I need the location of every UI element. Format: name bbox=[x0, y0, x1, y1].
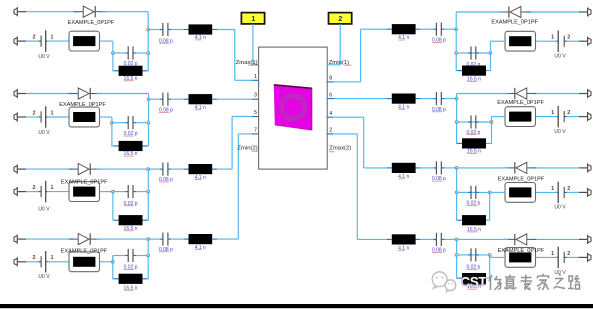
wire row L2 diode to junction bbox=[97, 93, 149, 95]
wire row R1 pin stub bbox=[333, 81, 360, 83]
junction row L3 node A bbox=[111, 190, 114, 193]
svg-text:3: 3 bbox=[254, 93, 257, 99]
svg-text:8: 8 bbox=[329, 76, 332, 82]
wire row L1 tank top right bbox=[136, 52, 148, 54]
block EXAMPLE_0P1PF body row R4 bbox=[505, 248, 536, 268]
svg-text:U0 V: U0 V bbox=[554, 129, 566, 135]
label 0.02 p row L3 bbox=[124, 201, 138, 207]
voltage source U0 row R3 battery bbox=[556, 182, 567, 204]
wire row L4 tank bottom right bbox=[146, 256, 149, 279]
junction row L2 node A bbox=[110, 121, 113, 124]
svg-text:U0 V: U0 V bbox=[554, 54, 566, 60]
svg-text:1: 1 bbox=[51, 185, 54, 191]
wire row R2 junction to series cap bbox=[445, 98, 457, 100]
wire row R3 tank top right bbox=[468, 191, 490, 193]
svg-text:2: 2 bbox=[567, 110, 570, 116]
wire row R1 diode to junction bbox=[456, 11, 502, 13]
capacitor 0.02p row L4 bbox=[125, 255, 128, 257]
wire row R2 node A jog bbox=[491, 117, 493, 122]
wire row R3 vertical to pin bbox=[363, 117, 365, 168]
wire row L3 junction to series cap bbox=[148, 168, 159, 170]
label 4.1 n row R3 bbox=[398, 174, 409, 180]
inductor 4.1n row R1 bbox=[416, 28, 421, 30]
svg-text:1: 1 bbox=[551, 110, 554, 116]
wire row L2 tank bottom right bbox=[147, 123, 148, 146]
watermark text CST badge bbox=[460, 274, 487, 289]
wire row L4 tank bottom left bbox=[113, 256, 114, 279]
wire row L3 cap to inductor bbox=[171, 168, 184, 170]
label 0.02 p row R4 bbox=[466, 264, 480, 270]
port P5 (left row 3 top) bbox=[14, 165, 26, 174]
wire row L3 tank top right bbox=[136, 191, 148, 193]
wire row R3 diode to junction bbox=[457, 167, 509, 169]
wire row L1 battery to block bbox=[47, 40, 69, 42]
wire row R3 junction to series cap bbox=[445, 167, 457, 169]
label 0.08 p row L1 bbox=[159, 38, 173, 44]
wire row L1 tank bottom right bbox=[146, 53, 149, 71]
svg-text:U0 V: U0 V bbox=[38, 206, 50, 212]
svg-text:2: 2 bbox=[329, 128, 332, 134]
wire row L2 block to node A bbox=[100, 116, 112, 118]
port P8 (left row 4 source) bbox=[14, 257, 26, 266]
wire row L4 junction to series cap bbox=[148, 238, 160, 240]
inductor 4.1n row L1 bbox=[184, 29, 189, 31]
junction row R4 node A bbox=[488, 253, 491, 256]
diode D4 EXAMPLE_0P1PF bbox=[69, 238, 75, 240]
inductor 16.5n row L3 bbox=[114, 219, 119, 221]
svg-text:1: 1 bbox=[551, 35, 554, 41]
label 16.5 n row R3 bbox=[467, 227, 481, 233]
diode D4R EXAMPLE_0P1PF bbox=[530, 238, 536, 240]
svg-text:2: 2 bbox=[567, 251, 570, 257]
wire row R3 junction down to tank bbox=[456, 168, 458, 193]
label 0.02 p row L2 bbox=[124, 131, 138, 137]
label 16.5 n row L1 bbox=[124, 76, 138, 82]
svg-text:EXAMPLE_0P1PF: EXAMPLE_0P1PF bbox=[497, 100, 544, 106]
wire row R2 port to diode bbox=[533, 93, 579, 95]
watermark WeChat icon bbox=[432, 272, 456, 292]
label 4.1 n row L3 bbox=[195, 175, 206, 181]
wire row L3 inductor to corner bbox=[217, 168, 232, 170]
block EXAMPLE_0P1PF body row L1 bbox=[69, 31, 100, 51]
label 16.5 n row L3 bbox=[124, 226, 138, 232]
svg-text:U0 V: U0 V bbox=[38, 274, 50, 280]
wire row R3 cap to inductor bbox=[420, 167, 433, 169]
port P2R (right row 1 source) bbox=[579, 37, 591, 46]
junction row L1 main bbox=[147, 28, 150, 31]
wire row R2 tank bottom right bbox=[487, 122, 492, 143]
junction row L2 node B bbox=[147, 121, 150, 124]
wire row R2 battery to block bbox=[536, 116, 558, 118]
capacitor 0.08p row L3 bbox=[160, 168, 163, 170]
port P1R (right row 1 top) bbox=[579, 7, 591, 16]
voltage source U0 row R2 battery bbox=[556, 106, 567, 128]
port P2 (left row 1 source) bbox=[14, 37, 26, 46]
svg-text:1: 1 bbox=[251, 16, 255, 23]
label 0.08 p row R2 bbox=[432, 107, 446, 113]
diode D1 EXAMPLE_0P1PF bbox=[74, 11, 80, 13]
port P3 (left row 2 top) bbox=[14, 89, 26, 98]
junction row L1 node B bbox=[147, 52, 150, 55]
wire row L2 junction to series cap bbox=[149, 98, 160, 100]
svg-text:1: 1 bbox=[51, 255, 54, 261]
svg-text:U0 V: U0 V bbox=[554, 204, 566, 210]
wire row R1 block to node A bbox=[491, 40, 506, 42]
label 16.5 n row R4 bbox=[467, 284, 481, 290]
port P8R (right row 4 source) bbox=[579, 253, 591, 262]
port P7R (right row 4 top) bbox=[579, 235, 591, 244]
wire row L1 inductor to corner bbox=[217, 29, 235, 31]
capacitor 0.02p row L1 bbox=[125, 52, 128, 54]
junction row R1 node B bbox=[455, 52, 458, 55]
voltage source U0 row L1 battery bbox=[39, 30, 48, 52]
label 0.08 p row L3 bbox=[159, 177, 173, 183]
svg-text:Zmax(2): Zmax(2) bbox=[329, 146, 351, 152]
S-parameter block U1 body bbox=[259, 47, 328, 169]
svg-text:4: 4 bbox=[329, 111, 332, 117]
svg-text:EXAMPLE_0P1PF: EXAMPLE_0P1PF bbox=[68, 20, 115, 26]
wire row L2 tank bottom left bbox=[112, 123, 114, 146]
junction row L4 main bbox=[147, 238, 150, 241]
voltage source U0 row L2 battery bbox=[39, 106, 48, 128]
junction row R2 node A bbox=[490, 121, 493, 124]
block EXAMPLE_0P1PF body row L3 bbox=[69, 182, 100, 202]
svg-text:1: 1 bbox=[551, 251, 554, 257]
junction row R1 main bbox=[455, 28, 458, 31]
port P5R (right row 3 top) bbox=[579, 163, 591, 172]
svg-text:EXAMPLE_0P1PF: EXAMPLE_0P1PF bbox=[498, 176, 545, 182]
wire row L2 inductor to block pin bbox=[217, 98, 252, 100]
junction row R4 main bbox=[455, 238, 458, 241]
label 4.1 n row R4 bbox=[398, 245, 409, 251]
svg-text:1: 1 bbox=[254, 74, 257, 80]
svg-text:2: 2 bbox=[567, 186, 570, 192]
wire row L1 block to node A bbox=[100, 40, 113, 42]
wire row L3 pin stub bbox=[232, 116, 252, 118]
inductor 16.5n row L2 bbox=[114, 145, 119, 147]
wire row R4 node A jog bbox=[489, 255, 491, 258]
wire from probe 1 to U1 bbox=[253, 24, 259, 65]
label 4.1 n row L1 bbox=[195, 35, 206, 41]
wire row R1 vertical to pin bbox=[360, 29, 362, 82]
diode D3 EXAMPLE_0P1PF bbox=[69, 168, 75, 170]
block EXAMPLE_0P1PF body row R3 bbox=[505, 183, 536, 203]
svg-text:U0 V: U0 V bbox=[38, 54, 50, 60]
wire row L4 cap to inductor bbox=[171, 238, 184, 240]
label 0.08 p row R3 bbox=[432, 176, 446, 182]
capacitor 0.08p row L4 bbox=[160, 238, 163, 240]
capacitor 0.08p row L1 bbox=[160, 29, 163, 31]
voltage source U0 row R4 battery bbox=[556, 247, 567, 269]
wire row L4 tank top left bbox=[113, 255, 125, 257]
wire row L1 port to battery bbox=[26, 40, 39, 42]
port P7 (left row 4 top) bbox=[14, 235, 26, 244]
label 0.02 p row R1 bbox=[466, 62, 480, 68]
svg-text:1: 1 bbox=[51, 110, 54, 116]
label 16.5 n row L2 bbox=[124, 151, 138, 157]
svg-text:1: 1 bbox=[51, 35, 54, 41]
label 16.5 n row R1 bbox=[467, 76, 481, 82]
port P3R (right row 2 top) bbox=[579, 89, 591, 98]
wire row R4 tank bottom right bbox=[487, 255, 490, 278]
wire from probe 2 to U1 bbox=[327, 24, 340, 65]
label 16.5 n row L4 bbox=[124, 285, 138, 291]
capacitor 0.08p row L2 bbox=[160, 98, 163, 100]
wire row L2 tank top right bbox=[136, 122, 148, 124]
label 0.08 p row R1 bbox=[432, 38, 446, 44]
wire row R4 vertical to pin bbox=[356, 134, 358, 240]
wire row R3 tank bottom right bbox=[487, 192, 490, 220]
wire row R4 battery to block bbox=[536, 256, 558, 258]
wire row R3 battery to block bbox=[536, 191, 558, 193]
diode D3R EXAMPLE_0P1PF bbox=[530, 167, 536, 169]
wire row L2 junction down to tank bbox=[148, 99, 150, 123]
svg-text:EXAMPLE_0P1PF: EXAMPLE_0P1PF bbox=[498, 248, 545, 254]
svg-text:EXAMPLE_0P1PF: EXAMPLE_0P1PF bbox=[61, 179, 108, 185]
wire row R1 port to battery bbox=[566, 40, 579, 42]
label 0.02 p row R2 bbox=[466, 130, 480, 136]
diode D1R EXAMPLE_0P1PF bbox=[524, 11, 530, 13]
junction row L4 node A bbox=[111, 260, 114, 263]
wire row L3 block to node A bbox=[100, 191, 113, 193]
svg-text:2: 2 bbox=[33, 110, 36, 116]
wire row L3 tank bottom left bbox=[112, 192, 115, 221]
bottom black bar bbox=[0, 304, 593, 308]
junction row R2 node B bbox=[455, 121, 458, 124]
wire row L3 tank top left bbox=[113, 191, 125, 193]
capacitor 0.02p row L2 bbox=[125, 122, 128, 124]
wire row R2 tank top right bbox=[468, 121, 492, 123]
wire row L2 node A drop bbox=[111, 117, 113, 123]
wire row R2 inductor to block pin bbox=[333, 98, 387, 100]
svg-text:2: 2 bbox=[33, 185, 36, 191]
wire row R4 tank top left bbox=[457, 254, 468, 256]
wire row R3 port to diode bbox=[533, 167, 579, 169]
wire row R4 pin stub bbox=[333, 133, 357, 135]
wire row R2 block to node A bbox=[492, 116, 506, 118]
svg-text:2: 2 bbox=[338, 16, 342, 23]
wire row L3 vertical to pin bbox=[231, 117, 233, 170]
wire row L4 port to battery bbox=[26, 261, 39, 263]
wire row R3 tank bottom left bbox=[456, 192, 459, 220]
net label Zmin(1) bbox=[329, 60, 352, 66]
svg-text:7: 7 bbox=[254, 128, 257, 134]
junction row L3 main bbox=[147, 168, 150, 171]
junction row L2 main bbox=[147, 98, 150, 101]
wire row L2 vertical diode drop bbox=[148, 94, 150, 100]
inductor 4.1n row R2 bbox=[416, 98, 421, 100]
net label Zmax(2) bbox=[329, 146, 351, 152]
svg-text:EXAMPLE_0P1PF: EXAMPLE_0P1PF bbox=[59, 102, 106, 108]
capacitor 0.02p row R3 bbox=[468, 191, 471, 193]
wire row L1 diode to junction bbox=[102, 11, 149, 13]
wire row L4 node A rise bbox=[112, 256, 114, 262]
inductor 4.1n row R4 bbox=[416, 238, 421, 240]
wire row L1 port to diode bbox=[26, 11, 77, 13]
capacitor 0.08p row R4 bbox=[441, 238, 444, 240]
wire row R1 inductor to corner bbox=[361, 28, 387, 30]
wire row R2 cap to inductor bbox=[420, 98, 433, 100]
svg-text:EXAMPLE_0P1PF: EXAMPLE_0P1PF bbox=[61, 248, 108, 254]
capacitor 0.02p row L3 bbox=[125, 191, 128, 193]
probe label 2 (yellow) bbox=[329, 13, 352, 24]
wire row R2 vertical diode drop bbox=[456, 94, 458, 99]
svg-text:2: 2 bbox=[33, 35, 36, 41]
wire row R1 node A jog bbox=[490, 41, 492, 53]
wire row L4 tank top right bbox=[136, 255, 148, 257]
wire row R1 battery to block bbox=[536, 40, 558, 42]
wire row R2 port to battery bbox=[566, 116, 579, 118]
capacitor 0.02p row R4 bbox=[468, 254, 471, 256]
wire row L1 tank bottom left bbox=[112, 53, 115, 71]
wire row R1 tank bottom right bbox=[487, 53, 491, 71]
wire row R3 inductor to corner bbox=[364, 167, 387, 169]
wire row R4 junction down to tank bbox=[456, 239, 458, 255]
wire row L1 cap to inductor bbox=[171, 29, 184, 31]
wire row R1 tank bottom left bbox=[456, 53, 457, 71]
capacitor 0.08p row R2 bbox=[441, 98, 444, 100]
wire row R2 junction down to tank bbox=[456, 99, 458, 122]
wire row L2 port to battery bbox=[26, 116, 39, 118]
wire row L4 inductor to corner bbox=[217, 238, 238, 240]
wire row R4 port to diode bbox=[533, 238, 579, 240]
wire row R2 diode to junction bbox=[457, 93, 509, 95]
wire row L2 tank top left bbox=[112, 122, 125, 124]
wire row L1 vertical to pin bbox=[234, 30, 236, 81]
inductor 4.1n row L2 bbox=[184, 98, 189, 100]
block EXAMPLE_0P1PF body row R1 bbox=[505, 31, 536, 51]
wire row R1 junction down to tank bbox=[455, 29, 457, 53]
wire row R3 tank top left bbox=[457, 191, 468, 193]
wire row L4 pin stub bbox=[238, 133, 252, 135]
wire row R1 vertical diode drop bbox=[455, 12, 457, 29]
label 0.02 p row L1 bbox=[124, 61, 138, 67]
wire row R2 tank top left bbox=[457, 121, 468, 123]
label 4.1 n row R2 bbox=[398, 104, 409, 110]
magenta 3D structure icon inside U1 bbox=[274, 85, 312, 130]
label 4.1 n row L2 bbox=[195, 105, 206, 111]
wire row L4 port to diode bbox=[26, 238, 72, 240]
inductor 4.1n row R3 bbox=[416, 167, 421, 169]
label 16.5 n row R2 bbox=[467, 148, 481, 154]
wire row L4 block to node A bbox=[100, 261, 113, 263]
wire row R1 tank top right bbox=[468, 52, 491, 54]
label 4.1 n row R1 bbox=[398, 35, 409, 41]
inductor 16.5n row L4 bbox=[114, 278, 119, 280]
wire row L1 node A drop bbox=[112, 41, 114, 53]
wire row L3 diode to junction bbox=[97, 168, 149, 170]
junction row R3 main bbox=[455, 166, 458, 169]
voltage source U0 row R1 battery bbox=[556, 30, 567, 52]
port P4R (right row 2 source) bbox=[579, 112, 591, 121]
capacitor 0.08p row R3 bbox=[441, 167, 444, 169]
diode D2R EXAMPLE_0P1PF bbox=[530, 93, 536, 95]
capacitor 0.02p row R2 bbox=[468, 121, 471, 123]
wire row R1 tank top left bbox=[456, 52, 468, 54]
wire row L1 junction down to tank bbox=[147, 30, 149, 54]
wire row R4 diode to junction bbox=[457, 238, 509, 240]
block EXAMPLE_0P1PF body row L4 bbox=[69, 252, 100, 272]
wire row L4 diode to junction bbox=[97, 238, 149, 240]
wire row R1 port to diode bbox=[527, 11, 579, 13]
wire row R3 port to battery bbox=[566, 191, 579, 193]
wire row L4 vertical to pin bbox=[237, 134, 239, 239]
label 0.08 p row L2 bbox=[159, 108, 173, 114]
wire row R1 cap to inductor bbox=[420, 28, 433, 30]
capacitor 0.02p row R1 bbox=[468, 52, 471, 54]
voltage source U0 row L3 battery bbox=[39, 181, 48, 203]
wire row L3 junction down to tank bbox=[147, 169, 149, 192]
svg-text:U0 V: U0 V bbox=[38, 130, 50, 136]
wire row L1 pin stub bbox=[235, 79, 252, 81]
label 0.02 p row R3 bbox=[466, 200, 480, 206]
svg-text:EXAMPLE_0P1PF: EXAMPLE_0P1PF bbox=[491, 19, 538, 25]
label 4.1 n row L4 bbox=[195, 245, 206, 251]
block EXAMPLE_0P1PF body row L2 bbox=[69, 107, 100, 127]
net label Zmin(2) bbox=[237, 145, 258, 151]
inductor 16.5n row R3 bbox=[485, 219, 488, 221]
wire row R4 tank bottom left bbox=[456, 255, 459, 278]
wire row L2 battery to block bbox=[47, 116, 69, 118]
inductor 16.5n row R2 bbox=[485, 142, 488, 144]
junction row R1 node A bbox=[489, 52, 492, 55]
voltage source U0 row L4 battery bbox=[39, 251, 48, 273]
wire row R4 inductor to corner bbox=[357, 238, 387, 240]
net label Zmax(1) bbox=[236, 60, 259, 66]
wire row R4 port to battery bbox=[566, 256, 579, 258]
diode D2 EXAMPLE_0P1PF bbox=[69, 93, 75, 95]
wire row R4 block to node A bbox=[490, 256, 505, 258]
wire row L4 junction down to tank bbox=[147, 239, 149, 255]
inductor 4.1n row L4 bbox=[184, 238, 189, 240]
inductor 4.1n row L3 bbox=[184, 168, 189, 170]
inductor 16.5n row R4 bbox=[485, 277, 488, 279]
port P6R (right row 3 source) bbox=[579, 188, 591, 197]
wire row L1 tank top left bbox=[113, 52, 125, 54]
port P1 (left row 1 top) bbox=[14, 7, 26, 16]
wire row L2 cap to inductor bbox=[171, 98, 184, 100]
svg-text:2: 2 bbox=[567, 35, 570, 41]
junction row L1 node A bbox=[111, 52, 114, 55]
label 0.02 p row L4 bbox=[124, 265, 138, 271]
label 0.08 p row L4 bbox=[159, 247, 173, 253]
wire row L3 port to battery bbox=[26, 191, 39, 193]
label 0.08 p row R4 bbox=[432, 248, 446, 254]
capacitor 0.08p row R1 bbox=[441, 28, 444, 30]
svg-text:2: 2 bbox=[33, 255, 36, 261]
wire row R2 tank bottom left bbox=[456, 122, 459, 143]
wire row L4 battery to block bbox=[47, 261, 69, 263]
wire row L1 vertical diode drop bbox=[147, 12, 149, 30]
svg-text:5: 5 bbox=[254, 110, 257, 116]
wire row R3 block to node A bbox=[490, 191, 505, 193]
wire row R4 tank top right bbox=[468, 254, 490, 256]
inductor 16.5n row L1 bbox=[114, 70, 119, 72]
junction row R3 node B bbox=[455, 191, 458, 194]
watermark text fangzhen zhuanjia zhilu (drawn strokes) bbox=[489, 274, 580, 291]
wire row R4 junction to series cap bbox=[445, 238, 457, 240]
svg-text:Zmin(2): Zmin(2) bbox=[237, 145, 257, 151]
inductor 16.5n row R1 bbox=[485, 70, 488, 72]
port P4 (left row 2 source) bbox=[14, 112, 26, 121]
block EXAMPLE_0P1PF body row R2 bbox=[505, 107, 536, 127]
wire row R3 pin stub bbox=[333, 116, 363, 118]
wire row L3 battery to block bbox=[47, 191, 69, 193]
junction row L3 node B bbox=[147, 190, 150, 193]
probe label 1 (yellow) bbox=[241, 13, 264, 24]
wire row L3 tank bottom right bbox=[146, 192, 149, 221]
junction row L4 node B bbox=[147, 254, 150, 257]
